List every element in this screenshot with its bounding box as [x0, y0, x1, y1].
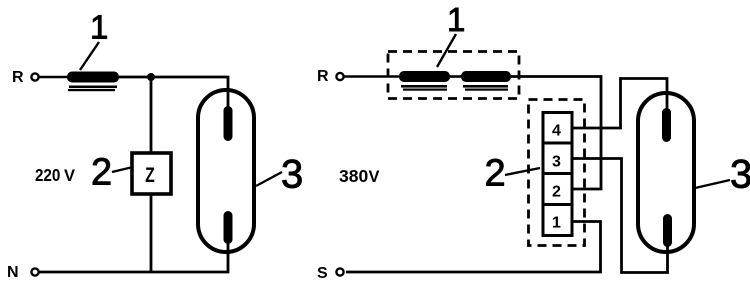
- svg-text:3: 3: [281, 153, 303, 197]
- svg-text:Z: Z: [145, 163, 155, 187]
- svg-text:220: 220: [35, 166, 60, 185]
- svg-text:3: 3: [730, 153, 750, 197]
- svg-text:V: V: [64, 167, 75, 185]
- svg-text:R: R: [12, 69, 24, 86]
- svg-text:4: 4: [552, 123, 561, 140]
- svg-text:S: S: [317, 265, 328, 282]
- svg-text:1: 1: [90, 9, 108, 46]
- svg-text:3: 3: [552, 154, 561, 171]
- svg-text:1: 1: [552, 215, 561, 232]
- svg-text:380: 380: [339, 166, 368, 186]
- svg-text:N: N: [7, 264, 19, 281]
- svg-text:1: 1: [447, 1, 465, 38]
- svg-text:V: V: [369, 168, 380, 186]
- svg-text:2: 2: [552, 184, 561, 201]
- svg-text:2: 2: [485, 153, 506, 195]
- svg-text:R: R: [317, 68, 329, 85]
- svg-text:2: 2: [91, 152, 112, 194]
